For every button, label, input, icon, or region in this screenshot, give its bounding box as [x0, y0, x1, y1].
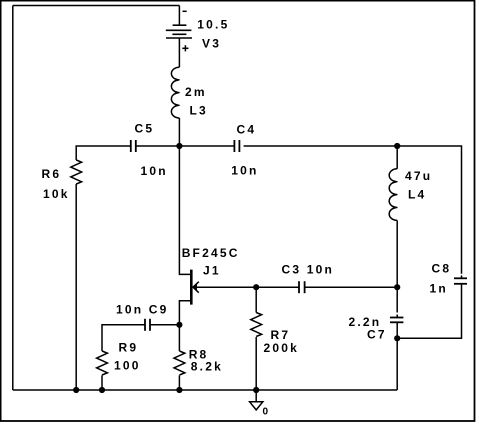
- wire node to JFET drain: [179, 146, 190, 274]
- svg-text:R9: R9: [119, 340, 139, 354]
- svg-text:R7: R7: [271, 328, 291, 342]
- wire source node to R8: [178, 325, 180, 351]
- capacitor C7 lead stub: [396, 315, 398, 318]
- wire R7 to bottom rail: [255, 337, 257, 390]
- capacitor C3: [299, 281, 305, 293]
- junction node source C9: [176, 322, 182, 328]
- svg-text:0: 0: [263, 407, 269, 418]
- wire L4 to gate node: [396, 220, 398, 287]
- wire C8 to C7 bottom node: [397, 284, 461, 339]
- junction node gate R7: [253, 284, 259, 290]
- svg-text:2m: 2m: [185, 85, 207, 99]
- wire battery top stem: [178, 6, 180, 26]
- junction node R9 bottom: [99, 387, 105, 393]
- wire source node to C9: [151, 324, 180, 326]
- svg-text:J1: J1: [203, 263, 221, 277]
- wire C4 to L4 node to C8 branch: [244, 146, 462, 274]
- battery V3: [166, 25, 192, 38]
- svg-text:C5: C5: [135, 122, 155, 136]
- ground stem: [255, 390, 257, 401]
- svg-text:BF245C: BF245C: [182, 246, 240, 260]
- wire R6 to bottom rail: [75, 184, 77, 390]
- transistor J1 channel bar: [190, 270, 193, 305]
- wire L4 node down: [396, 146, 398, 169]
- inductor L4 loop cusps: [393, 180, 397, 208]
- junction node R6 bottom: [73, 387, 79, 393]
- svg-text:C4: C4: [237, 122, 257, 136]
- wire C3 to L4 bottom node: [305, 286, 397, 288]
- svg-text:C8: C8: [432, 262, 452, 276]
- svg-text:100: 100: [114, 358, 141, 372]
- capacitor C5: [131, 140, 136, 152]
- capacitor C8 lead stub: [461, 275, 463, 278]
- resistor R9: [97, 351, 108, 375]
- wire battery to L3: [178, 38, 180, 67]
- wire gate to C3: [193, 286, 299, 288]
- wire rail R6 to C5: [76, 146, 131, 160]
- inductor L4: [389, 169, 397, 221]
- transistor J1 source stub: [179, 301, 190, 325]
- svg-text:C3 10n: C3 10n: [282, 263, 335, 277]
- junction node R8 bottom: [176, 387, 182, 393]
- junction node ground: [253, 387, 259, 393]
- resistor R6: [71, 160, 82, 184]
- junction node gate L4 bottom: [394, 284, 400, 290]
- wire left vertical: [12, 6, 14, 391]
- svg-text:10n C9: 10n C9: [116, 303, 169, 317]
- ground symbol: [250, 402, 263, 410]
- wire bottom ground rail: [13, 389, 397, 391]
- svg-text:200k: 200k: [264, 341, 300, 355]
- inductor L3 loop cusps: [175, 79, 179, 107]
- capacitor C7: [390, 318, 403, 323]
- resistor R7: [251, 313, 262, 337]
- wire C7 to bottom rail: [396, 322, 398, 390]
- capacitor C4: [234, 140, 239, 152]
- svg-text:47u: 47u: [405, 169, 432, 183]
- wire C5 to C4: [136, 145, 235, 147]
- svg-text:8.2k: 8.2k: [191, 360, 223, 374]
- transistor J1 gate arrow tip: [193, 284, 197, 290]
- svg-text:10n: 10n: [231, 164, 258, 178]
- wire gate node to C7: [396, 287, 398, 312]
- svg-text:R6: R6: [42, 167, 62, 181]
- resistor R8: [174, 351, 185, 375]
- wire R8 to bottom rail: [178, 375, 180, 390]
- inductor L3: [171, 67, 179, 118]
- svg-text:10k: 10k: [43, 187, 70, 201]
- svg-text:L3: L3: [190, 104, 208, 118]
- junction node C7 C8: [394, 335, 400, 341]
- battery plus sign: [182, 47, 188, 49]
- svg-text:10n: 10n: [141, 164, 168, 178]
- capacitor C8: [454, 278, 467, 284]
- wire R9 to bottom rail: [101, 375, 103, 390]
- wire R7 node down: [255, 287, 257, 312]
- wire top from battery to left edge: [13, 5, 180, 7]
- wire C9 to R9: [102, 325, 145, 351]
- svg-text:L4: L4: [408, 188, 426, 202]
- battery minus sign: [183, 10, 187, 12]
- svg-text:1n: 1n: [430, 281, 448, 295]
- junction node L4 top: [394, 143, 400, 149]
- junction node drain top: [176, 143, 182, 149]
- transistor J1 gate arrow: [193, 282, 199, 293]
- svg-text:C7: C7: [367, 327, 387, 341]
- svg-text:V3: V3: [202, 37, 221, 51]
- wire L3 to node: [178, 118, 180, 146]
- capacitor C9: [145, 319, 150, 331]
- svg-text:10.5: 10.5: [197, 18, 229, 32]
